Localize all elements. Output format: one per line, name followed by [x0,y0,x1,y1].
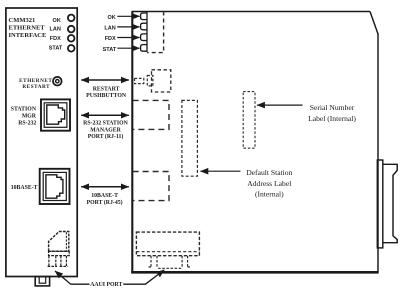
main module body: corner chamfer [370,12,378,35]
RS-232 jack inner bezel [44,103,67,128]
serial number arrow [257,104,303,106]
restart pushbutton body (hidden) [152,70,171,92]
svg-text:Address Label: Address Label [247,179,291,188]
AAUI connector (panel, side view) [49,232,69,252]
svg-text:MGR: MGR [22,113,37,119]
LED OK (panel) [68,15,75,22]
svg-text:OK: OK [107,15,115,21]
main module body: bottom edge [131,271,378,274]
AAUI connector (module bottom) left pin [149,256,157,267]
LED FDX (panel) [68,35,75,42]
svg-text:PUSHBUTTON: PUSHBUTTON [86,93,127,99]
svg-text:ETHERNET: ETHERNET [9,25,46,32]
STAT arrow [117,47,139,49]
svg-text:OK: OK [53,18,61,24]
front panel outline [6,8,77,277]
LED bump OK [141,13,147,20]
svg-text:RS-232: RS-232 [18,120,36,126]
AAUI connector (module bottom) bottom edge [158,267,181,269]
panel mounting tab [35,277,49,286]
AAUI port right arrow [123,270,164,284]
svg-text:LAN: LAN [49,27,60,33]
ethernet restart button [53,77,62,86]
LED LAN (panel) [68,26,75,33]
LAN arrow [117,26,139,28]
AAUI connector base [49,251,70,255]
AAUI connector (module bottom, hidden) body [136,232,199,256]
svg-text:FDX: FDX [50,36,61,42]
svg-text:STATION: STATION [11,107,37,113]
serial number label dashed outline [243,92,255,149]
AAUI connector inner edge [65,232,67,251]
AAUI port left arrow [55,271,90,284]
svg-text:RS-232 STATION: RS-232 STATION [83,121,129,127]
restart pushbutton actuator (hidden) [135,78,144,83]
LED stack holder (side view) [146,12,148,52]
svg-text:Label (Internal): Label (Internal) [308,114,356,123]
svg-text:LAN: LAN [104,26,115,32]
10BASE-T jack outer bezel [40,169,70,204]
restart pushbutton collar (hidden) [147,76,153,86]
default station address arrow [200,170,240,172]
RS-232 port dashed outline (hidden) [133,100,169,129]
svg-text:Default Station: Default Station [246,168,292,177]
10BASE-T port dashed outline (hidden) [133,172,169,201]
10BASE-T double arrow [81,186,129,188]
backplane connector lip [383,164,397,242]
10BASE-T jack inner bezel [43,172,66,200]
AAUI connector (module bottom) inner line [136,251,199,253]
svg-text:AAUI PORT: AAUI PORT [90,282,122,288]
backplane connector strip [377,160,383,248]
RS-232 jack opening [47,105,65,124]
svg-text:RESTART: RESTART [22,84,50,90]
svg-text:STAT: STAT [103,47,117,53]
svg-text:MANAGER: MANAGER [90,127,121,133]
LED bump FDX [141,34,147,41]
svg-text:FDX: FDX [105,36,116,42]
main module body: right edge [377,34,379,273]
svg-text:Serial Number: Serial Number [310,103,355,112]
10BASE-T jack opening [46,175,63,198]
RESTART double arrow [81,79,129,81]
OK arrow [117,15,139,17]
svg-text:STAT: STAT [49,45,63,51]
LED compartment dashed outline [147,12,164,53]
main module body: top edge [132,11,371,13]
main module body: left edge [131,12,133,274]
svg-text:INTERFACE: INTERFACE [9,32,47,39]
tab inner slot [39,277,46,284]
AAUI connector (module bottom) right pin [182,256,190,267]
RS-232 double arrow [81,114,129,116]
svg-text:RESTART: RESTART [93,86,120,92]
LED STAT (panel) [68,45,75,52]
svg-text:(Internal): (Internal) [255,190,284,199]
svg-text:10BASE-T: 10BASE-T [91,193,118,199]
default station address label dashed outline [182,100,198,176]
svg-text:10BASE-T: 10BASE-T [11,185,38,191]
svg-text:CMM321: CMM321 [9,17,36,24]
RS-232 jack outer bezel [41,99,70,130]
FDX arrow [117,37,139,39]
svg-text:PORT (RJ-45): PORT (RJ-45) [87,199,123,206]
LED bump LAN [141,23,147,30]
LED bump STAT [141,45,147,52]
svg-text:PORT (RJ-11): PORT (RJ-11) [88,133,124,140]
AAUI connector pins [48,256,68,267]
